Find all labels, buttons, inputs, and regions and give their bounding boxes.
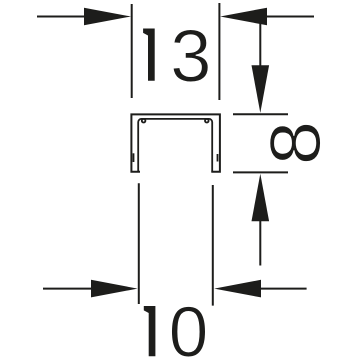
svg-text:3: 3 [170,14,211,97]
svg-text:0: 0 [169,293,209,360]
svg-text:8: 8 [256,121,335,165]
